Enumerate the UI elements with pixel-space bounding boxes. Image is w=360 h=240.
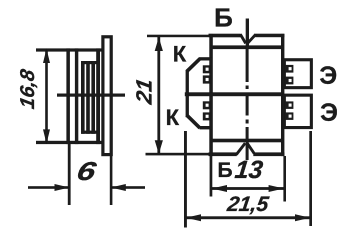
dimension line 16,8 [45, 51, 48, 142]
svg-text:Э: Э [320, 99, 338, 127]
К tab bottom: left edge [186, 94, 189, 117]
body top edge right part [255, 34, 284, 38]
body right edge [281, 34, 284, 156]
body bottom edge (with 16,8 extension) [36, 141, 102, 144]
body right wall [96, 48, 100, 144]
dim 6 left tail [28, 186, 69, 189]
horizontal center line of side view [57, 94, 125, 97]
body top edge left part (with 21 extension) [147, 35, 209, 38]
Э terminal 2 crimp holes [289, 104, 292, 107]
Э terminal 1 crimp squares [285, 65, 294, 73]
К tab bottom: crimp square 2 [203, 112, 210, 120]
body left edge [209, 34, 213, 156]
base lead Б [246, 19, 249, 50]
top seam line [211, 45, 283, 49]
dim 21,5 right arrowhead [295, 214, 310, 221]
inner wall 2 [75, 48, 78, 144]
V notch top right diagonal [248, 34, 256, 43]
center line dash 1 [246, 48, 249, 82]
dim 13 line [212, 187, 284, 190]
svg-text:16,8: 16,8 [17, 67, 39, 111]
body left wall [66, 48, 70, 144]
inner stack bottom edge [81, 131, 97, 134]
dim 6 right tail [111, 186, 145, 189]
center line dot 2 [246, 120, 249, 124]
V notch top left diagonal [240, 34, 245, 43]
notch bottom right diagonal [247, 143, 254, 153]
К tab bottom: crimp holes [206, 104, 209, 107]
К tab top: chamfer [185, 57, 201, 72]
svg-text:Б: Б [217, 159, 232, 182]
inner stack top edge [81, 61, 97, 64]
svg-text:Э: Э [319, 62, 337, 90]
inner stack plate B [86, 61, 90, 134]
dim 21,5 line [186, 216, 310, 219]
Э terminal 1 crimp holes [289, 67, 292, 70]
center line dot 1 [246, 86, 249, 90]
Э terminal 2 outline [284, 95, 311, 127]
center line dash 3 [246, 127, 249, 160]
svg-text:21: 21 [131, 77, 156, 107]
body bottom edge left part (with 21 extension) [146, 153, 209, 156]
svg-text:21,5: 21,5 [225, 193, 270, 216]
К tab bottom: crimp square 1 [203, 101, 210, 109]
bottom seam line [211, 139, 283, 143]
dim 21,5 left arrowhead [186, 214, 201, 221]
extension line left of dim 6 [68, 144, 71, 205]
dim 13 left arrowhead [212, 185, 227, 192]
К tab top: crimp holes [206, 68, 209, 71]
svg-text:13: 13 [233, 156, 264, 184]
inner stack plate A [81, 61, 85, 134]
body top edge (with 16,8 extension) [36, 48, 102, 51]
dim 13 right arrowhead [269, 185, 284, 192]
К tab top: left edge [186, 71, 189, 95]
dim 21,5 right extension [309, 131, 312, 226]
К tab top: crimp square 2 [203, 75, 210, 83]
svg-text:К: К [173, 42, 187, 67]
Э terminal 2 crimp squares [285, 101, 294, 109]
dim 6 right arrowhead [111, 184, 126, 191]
dim 21 arrow down [155, 140, 163, 154]
svg-text:К: К [166, 105, 180, 130]
arrow down 16,8 [43, 129, 50, 143]
center line dash 2 [246, 93, 249, 116]
К tab top: crimp square 1 [203, 65, 210, 73]
К tab bottom: chamfer [185, 114, 201, 129]
dim 21 line [157, 37, 160, 153]
dim 13 right extension [283, 156, 286, 202]
dim 13 left extension [210, 156, 213, 197]
dim 21,5 left extension [184, 131, 187, 228]
inner stack plate C [91, 61, 95, 134]
body bottom edge right part [253, 152, 284, 156]
svg-text:Б: Б [214, 2, 233, 32]
extension line right of dim 6 [110, 156, 113, 205]
middle horizontal line through body and tabs [185, 92, 282, 96]
К tab bottom: bottom edge [200, 126, 213, 129]
dim 6 left arrowhead [55, 184, 70, 191]
dim 21 arrow up [155, 37, 163, 51]
arrow up 16,8 [43, 49, 50, 63]
Э terminal 1 outline [284, 60, 311, 88]
mounting flange (side view) [103, 37, 111, 155]
notch bottom left diagonal [236, 143, 245, 155]
К tab top: top edge [199, 57, 212, 60]
